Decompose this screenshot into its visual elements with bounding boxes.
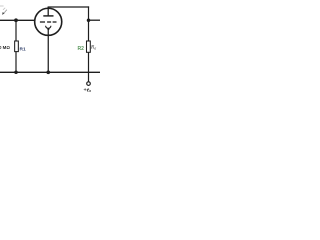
svg-text:R1: R1 <box>20 47 26 53</box>
node junction grid/R1 <box>14 18 18 22</box>
wire (grid input, left rail to tube) <box>0 19 35 21</box>
background <box>0 0 100 100</box>
node junction R1/ground <box>14 71 18 75</box>
resistor R2 <box>87 41 91 52</box>
svg-text:0 MΩ: 0 MΩ <box>0 45 10 50</box>
wire (right branch upper) <box>88 6 90 41</box>
wire (R1 top lead) <box>15 20 17 41</box>
wire (to B+ right edge) <box>89 19 101 21</box>
tube grid (dashed) <box>40 21 57 23</box>
terminal output <box>87 82 91 86</box>
wire (cropped remnant, top-left) <box>0 5 4 7</box>
wire (ground rail) <box>0 71 100 73</box>
wire (cathode lead to ground rail) <box>47 28 49 72</box>
resistor R1 <box>15 41 19 52</box>
node junction cathode/ground <box>46 70 50 74</box>
tube V1 envelope <box>35 8 62 35</box>
wire (R2 bottom lead, crosses ground rail) <box>88 52 90 82</box>
wire (plate lead) <box>47 7 49 16</box>
node e_in label <box>2 8 7 15</box>
wire (R1 bottom lead) <box>15 52 17 73</box>
wire (top rail, plate to right branch) <box>48 6 90 8</box>
node junction B+ tap <box>87 18 91 22</box>
svg-text:R2: R2 <box>78 46 85 52</box>
tube plate <box>43 15 53 17</box>
svg-text:+eo: +eo <box>83 87 91 93</box>
tube cathode <box>46 26 51 30</box>
